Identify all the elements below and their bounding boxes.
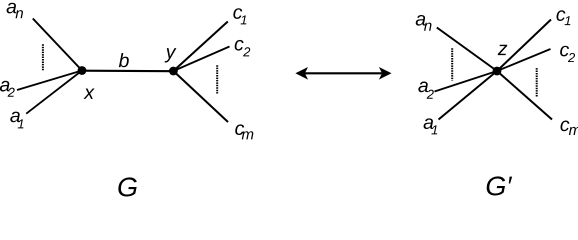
label a_2 (G') xyxy=(418,82,433,99)
label G' (caption of right graph) xyxy=(487,176,512,195)
dotted ellipsis right of G' xyxy=(536,68,538,97)
label x xyxy=(84,89,95,99)
wire edge x to a_1 xyxy=(26,71,82,114)
node y (vertex dot) xyxy=(169,67,178,76)
label G (caption of left graph) xyxy=(118,177,137,196)
label y xyxy=(165,48,177,62)
wire edge z to c_2 xyxy=(497,49,551,71)
label c_1 (G') xyxy=(556,10,570,25)
label c_m (G') xyxy=(560,121,578,135)
wire edge z to a_2 xyxy=(435,71,498,92)
label a_n xyxy=(7,3,23,18)
label a_1 xyxy=(10,112,23,129)
label c_m xyxy=(235,124,253,139)
dotted ellipsis left of G' xyxy=(451,48,453,80)
wire edge z to a_1 xyxy=(439,71,498,120)
double-headed arrow between G and G' xyxy=(295,67,391,80)
wire edge z to c_1 xyxy=(497,20,551,72)
label c_2 xyxy=(235,40,251,56)
wire edge z to c_m xyxy=(497,71,552,120)
label a_1 (G') xyxy=(424,118,438,134)
wire edge y to c_1 xyxy=(173,22,227,72)
wire edge y to c_m xyxy=(173,71,228,122)
label a_n (G') xyxy=(416,15,432,31)
dotted ellipsis left of G xyxy=(42,44,44,70)
node z (vertex dot) xyxy=(493,67,502,76)
dotted ellipsis right of G xyxy=(216,65,218,93)
label a_2 xyxy=(0,81,15,97)
node x (vertex dot) xyxy=(78,66,87,75)
wire edge x to a_2 xyxy=(17,71,82,91)
wire edge x to a_n xyxy=(33,19,82,71)
label b xyxy=(119,53,129,67)
label c_1 xyxy=(233,8,246,24)
wire edge y to c_2 xyxy=(173,47,229,72)
label c_2 (G') xyxy=(560,46,575,62)
wire edge z to a_n xyxy=(437,28,497,72)
wire edge b between x and y xyxy=(82,70,173,73)
label z xyxy=(498,45,508,55)
